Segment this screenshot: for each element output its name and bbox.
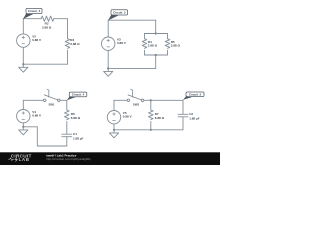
- node dot R7 top: [150, 99, 152, 101]
- capacitor C2: [178, 114, 188, 117]
- wire left branch upper: [107, 20, 109, 37]
- svg-text:3.88 Ω: 3.88 Ω: [70, 42, 80, 46]
- svg-text:tawdf / Lab1 Practice: tawdf / Lab1 Practice: [46, 153, 76, 157]
- svg-text:Circuit_2: Circuit_2: [28, 9, 41, 13]
- wire parallel bottom rail: [145, 54, 168, 56]
- wire R5 bottom lead: [167, 50, 169, 55]
- wire top rail right: [144, 99, 183, 101]
- wire left branch lower: [22, 48, 24, 65]
- wire top rail right segment: [54, 18, 68, 20]
- switch SW2: [127, 89, 144, 101]
- resistor R4: [142, 39, 147, 49]
- wire right branch lower: [67, 50, 69, 64]
- voltage source V3: [102, 37, 115, 50]
- wire center riser: [155, 55, 157, 68]
- ground: [104, 68, 113, 76]
- svg-text:SW2: SW2: [133, 102, 140, 106]
- node dot top: [155, 32, 157, 34]
- svg-text:Circuit_3: Circuit_3: [113, 11, 126, 15]
- wire right branch upper: [182, 100, 184, 113]
- label flag Circuit_3: [108, 10, 128, 21]
- label flag Circuit_4: [67, 92, 87, 100]
- node dot bottom: [155, 54, 157, 56]
- svg-text:2.88 Ω: 2.88 Ω: [148, 43, 158, 47]
- svg-text:3.88 Ω: 3.88 Ω: [171, 43, 181, 47]
- voltage source V2: [17, 34, 30, 47]
- wire left branch lower: [107, 51, 109, 69]
- svg-text:6.88 Ω: 6.88 Ω: [155, 116, 165, 120]
- svg-text:http://circuitlab.com/c/q24yun: http://circuitlab.com/c/q24yunafg48q: [46, 157, 90, 161]
- node junction dot: [22, 63, 24, 65]
- footer bar: [0, 152, 220, 165]
- svg-text:1.88 µF: 1.88 µF: [73, 137, 84, 141]
- wire top rail right: [60, 99, 67, 101]
- svg-text:0.88 V: 0.88 V: [123, 115, 133, 119]
- wire parallel top rail: [145, 33, 168, 35]
- wire left branch upper: [113, 100, 115, 110]
- wire left riser: [36, 127, 38, 146]
- ground: [19, 64, 28, 72]
- svg-text:C2: C2: [189, 112, 193, 116]
- wire bottom rail: [108, 67, 156, 69]
- svg-text:0.88 V: 0.88 V: [117, 41, 127, 45]
- wire left branch upper: [22, 100, 24, 109]
- resistor R6: [65, 110, 70, 120]
- node dot R7 bottom: [150, 129, 152, 131]
- wire R7 lower lead: [150, 122, 152, 130]
- wire top rail left segment: [23, 18, 41, 20]
- wire top rail left: [114, 99, 127, 101]
- node junction dot: [113, 129, 115, 131]
- ground: [19, 127, 28, 135]
- wire right branch upper: [67, 19, 69, 39]
- switch SW1: [43, 89, 60, 101]
- resistor R2: [41, 16, 54, 21]
- wire bottom rail: [23, 63, 67, 65]
- resistor R3: [65, 39, 70, 49]
- wire left branch lower: [22, 123, 24, 127]
- voltage source V5: [107, 111, 120, 124]
- CircuitLab logo: [8, 154, 31, 162]
- node junction dot: [22, 126, 24, 128]
- wire right branch upper: [66, 100, 68, 110]
- svg-text:1.88 µF: 1.88 µF: [189, 117, 200, 121]
- svg-text:Circuit_5: Circuit_5: [189, 93, 202, 97]
- svg-text:6.88 Ω: 6.88 Ω: [71, 116, 81, 120]
- svg-text:0.88 V: 0.88 V: [32, 38, 42, 42]
- svg-text:Circuit_4: Circuit_4: [72, 93, 85, 97]
- wire left branch upper: [22, 19, 24, 34]
- wire R4 bottom lead: [144, 50, 146, 55]
- svg-text:2.88 Ω: 2.88 Ω: [42, 25, 52, 29]
- wire to source bottom: [23, 126, 37, 128]
- resistor R7: [149, 110, 154, 120]
- wire top rail: [108, 19, 156, 21]
- svg-text:LAB: LAB: [19, 157, 30, 162]
- node junction dot: [107, 67, 109, 69]
- wire top rail left: [23, 99, 43, 101]
- resistor R5: [165, 39, 170, 49]
- wire below C1: [66, 137, 68, 146]
- capacitor C1: [62, 134, 72, 137]
- label flag Circuit_2: [23, 8, 42, 19]
- voltage source V4: [17, 110, 30, 123]
- wire R5 top lead: [167, 34, 169, 39]
- wire between R6 and C1: [66, 122, 68, 134]
- label flag Circuit_5: [183, 92, 204, 100]
- wire bottom rail: [114, 129, 183, 131]
- svg-text:SW1: SW1: [48, 102, 55, 106]
- wire center drop: [155, 20, 157, 33]
- wire R7 upper lead: [150, 100, 152, 110]
- wire left branch lower: [113, 124, 115, 130]
- ground: [109, 130, 118, 138]
- wire R4 top lead: [144, 34, 146, 39]
- wire right branch lower: [182, 117, 184, 130]
- svg-text:0.88 V: 0.88 V: [32, 114, 42, 118]
- wire bottom rail: [37, 145, 67, 147]
